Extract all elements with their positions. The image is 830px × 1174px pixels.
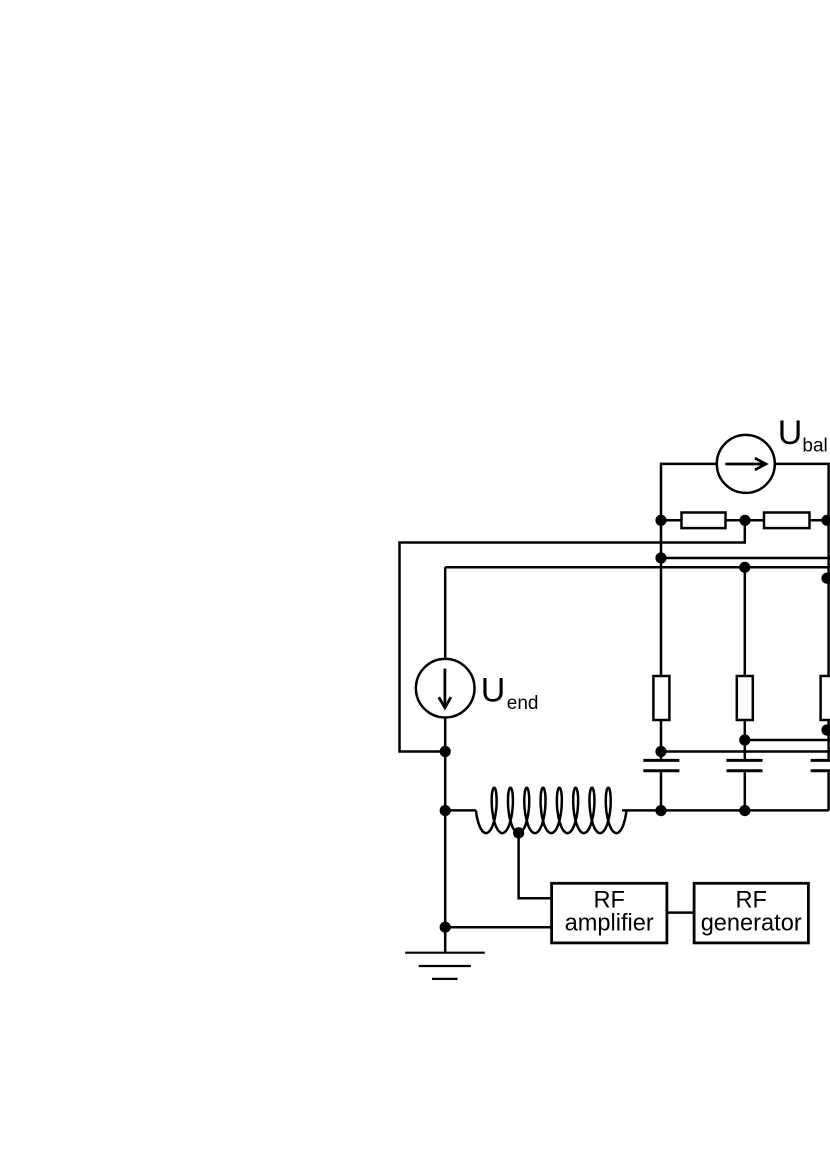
wire xyxy=(744,772,747,810)
junction xyxy=(739,805,750,816)
svg-text:amplifier: amplifier xyxy=(565,911,654,937)
wire xyxy=(667,911,694,914)
wire (coil tap) xyxy=(519,833,552,898)
wire xyxy=(827,729,830,732)
resistor R3 xyxy=(653,676,669,720)
junction xyxy=(821,515,830,526)
junction xyxy=(440,922,451,933)
capacitor C2 xyxy=(726,760,762,770)
wire xyxy=(661,464,717,520)
voltage source U_bal xyxy=(717,435,775,493)
RF amplifier U2 xyxy=(552,883,667,943)
junction xyxy=(655,552,666,563)
junction xyxy=(739,562,750,573)
wire xyxy=(775,464,829,520)
voltage source U_end xyxy=(416,659,475,718)
wire xyxy=(445,809,476,812)
junction xyxy=(655,515,666,526)
wire xyxy=(445,566,830,569)
junction (coil tap) xyxy=(513,827,524,838)
wire xyxy=(444,811,447,928)
junction xyxy=(655,805,666,816)
RF generator U3 xyxy=(694,883,808,943)
svg-text:U: U xyxy=(778,414,803,452)
resistor R2 xyxy=(764,513,810,529)
resistor R5 xyxy=(821,676,830,720)
wire xyxy=(445,926,551,929)
junction xyxy=(739,515,750,526)
inductor L1 xyxy=(476,788,627,833)
junction xyxy=(821,573,830,584)
capacitor C1 xyxy=(643,760,679,770)
wire xyxy=(400,520,745,751)
junction xyxy=(440,805,451,816)
wire xyxy=(726,519,765,522)
wire xyxy=(827,520,830,676)
junction xyxy=(739,734,750,745)
svg-text:U: U xyxy=(481,671,506,709)
wire xyxy=(444,927,447,953)
resistor R1 xyxy=(682,513,726,529)
wire xyxy=(744,720,747,759)
resistor R4 xyxy=(737,676,753,720)
capacitor C3 xyxy=(811,760,830,770)
wire xyxy=(661,557,830,560)
wire xyxy=(661,750,830,753)
junction xyxy=(655,746,666,757)
wire xyxy=(661,519,682,522)
ground xyxy=(405,953,485,979)
label U_end xyxy=(481,671,539,714)
wire xyxy=(444,718,447,811)
label U_bal xyxy=(778,414,828,456)
svg-text:generator: generator xyxy=(701,911,802,937)
svg-text:bal: bal xyxy=(802,435,827,456)
wire xyxy=(622,809,829,812)
svg-text:end: end xyxy=(507,693,539,714)
wire xyxy=(444,567,447,659)
junction xyxy=(440,746,451,757)
wire xyxy=(810,519,829,522)
wire xyxy=(745,739,830,742)
wire xyxy=(660,772,663,810)
wire xyxy=(827,772,830,810)
wire xyxy=(660,720,663,759)
wire xyxy=(660,520,663,676)
junction xyxy=(821,724,830,735)
wire xyxy=(827,720,830,759)
wire xyxy=(744,567,747,676)
